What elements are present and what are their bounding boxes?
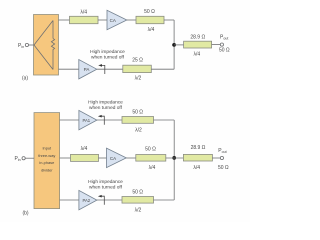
svg-text:λ/4: λ/4 — [148, 27, 155, 33]
svg-text:(a): (a) — [22, 76, 28, 82]
svg-text:λ/2: λ/2 — [135, 128, 142, 134]
svg-text:(b): (b) — [22, 211, 28, 217]
svg-text:High impedance: High impedance — [90, 49, 125, 55]
svg-text:CA: CA — [110, 18, 116, 23]
svg-text:when turned off: when turned off — [89, 105, 123, 111]
svg-text:λ/4: λ/4 — [80, 9, 87, 15]
svg-text:50 Ω: 50 Ω — [144, 9, 155, 15]
svg-text:High impedance: High impedance — [88, 179, 123, 185]
svg-text:λ/4: λ/4 — [193, 52, 200, 58]
svg-text:when turned off: when turned off — [91, 54, 125, 60]
svg-text:λ/4: λ/4 — [149, 165, 156, 171]
svg-text:three-way: three-way — [38, 153, 55, 158]
svg-text:28.9 Ω: 28.9 Ω — [191, 145, 206, 151]
svg-text:PA2: PA2 — [82, 198, 90, 203]
svg-text:PA1: PA1 — [82, 118, 90, 123]
svg-text:High impedance: High impedance — [88, 100, 123, 106]
svg-text:Input: Input — [42, 146, 52, 151]
svg-text:λ/2: λ/2 — [135, 75, 142, 81]
svg-text:28.9 Ω: 28.9 Ω — [190, 35, 205, 41]
svg-text:λ/4: λ/4 — [81, 146, 88, 152]
svg-text:when turned off: when turned off — [89, 185, 123, 191]
svg-text:50 Ω: 50 Ω — [219, 47, 230, 53]
svg-text:CA: CA — [110, 156, 116, 161]
svg-text:in-phase: in-phase — [39, 160, 54, 165]
svg-text:divider: divider — [41, 167, 53, 172]
svg-text:PA: PA — [84, 67, 90, 72]
svg-text:50 Ω: 50 Ω — [132, 189, 143, 195]
svg-text:25 Ω: 25 Ω — [132, 57, 143, 63]
svg-text:λ/2: λ/2 — [135, 208, 142, 214]
svg-text:50 Ω: 50 Ω — [218, 165, 229, 171]
svg-text:50 Ω: 50 Ω — [132, 109, 143, 115]
svg-text:50 Ω: 50 Ω — [145, 146, 156, 152]
svg-text:λ/4: λ/4 — [193, 165, 200, 171]
